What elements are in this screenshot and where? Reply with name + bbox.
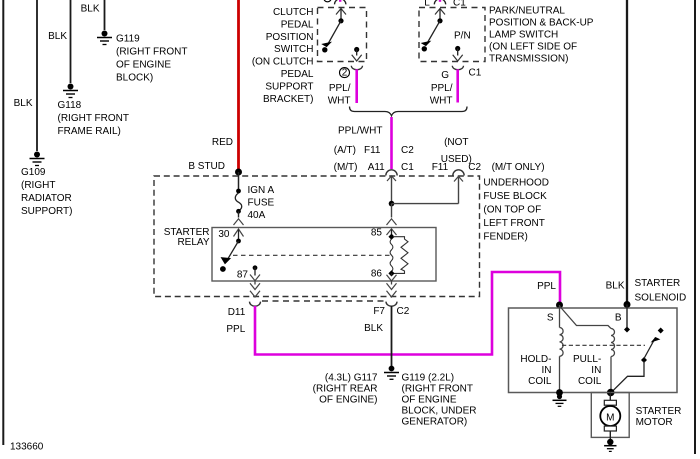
svg-text:IN: IN	[542, 365, 552, 376]
node S terminal	[556, 302, 563, 309]
svg-text:PPL: PPL	[537, 281, 556, 292]
P/N switch contacts	[422, 9, 471, 52]
underhood fuse block dashed box	[154, 176, 480, 301]
F11 C2 labels (not used connector)	[432, 162, 482, 173]
svg-text:WHT: WHT	[328, 95, 351, 106]
svg-text:(ON CLUTCH: (ON CLUTCH	[252, 57, 314, 68]
ground below starter motor	[604, 439, 616, 452]
connector cup below P/N box	[452, 66, 463, 70]
svg-text:(4.3L) G117: (4.3L) G117	[325, 373, 378, 384]
svg-text:UNDERHOOD: UNDERHOOD	[483, 178, 549, 189]
svg-text:C2: C2	[401, 145, 414, 156]
svg-text:PULL-: PULL-	[573, 354, 601, 365]
node hold-in coil to case	[556, 389, 563, 396]
ground G119 (engine block)	[97, 31, 187, 84]
svg-text:IGN A: IGN A	[248, 185, 275, 196]
node B terminal	[624, 301, 631, 308]
brace joining the two PPL/WHT wires	[350, 107, 468, 116]
connector A11/C1 on fuse block	[386, 170, 397, 204]
node B STUD junction dot	[235, 169, 242, 176]
svg-text:BLK: BLK	[14, 98, 33, 109]
svg-text:(RIGHT FRONT: (RIGHT FRONT	[58, 113, 129, 124]
starter motor M	[600, 393, 620, 441]
svg-text:C1: C1	[453, 0, 466, 9]
svg-text:BLK: BLK	[364, 323, 383, 334]
svg-text:OF ENGINE: OF ENGINE	[116, 60, 171, 71]
svg-text:FENDER): FENDER)	[483, 232, 527, 243]
node junction of A11 branch	[389, 201, 459, 207]
wire junction down to relay pin 85	[387, 204, 397, 225]
wire BLK to G119	[81, 0, 105, 30]
svg-text:(NOT: (NOT	[444, 137, 468, 148]
relay resistor (zigzag) parallel branch	[393, 237, 408, 274]
svg-text:PARK/NEUTRAL: PARK/NEUTRAL	[489, 6, 565, 17]
svg-text:SUPPORT): SUPPORT)	[21, 206, 73, 217]
svg-text:(A/T): (A/T)	[334, 145, 356, 156]
wire BLK to G118	[48, 0, 70, 83]
svg-text:OF ENGINE: OF ENGINE	[402, 395, 457, 406]
svg-text:BLOCK, UNDER: BLOCK, UNDER	[402, 406, 477, 417]
svg-text:PEDAL: PEDAL	[281, 19, 314, 30]
svg-text:40A: 40A	[248, 210, 266, 221]
right page border	[694, 0, 696, 454]
wire BLK from F7 to ground	[364, 306, 391, 366]
svg-text:FUSE BLOCK: FUSE BLOCK	[483, 191, 547, 202]
svg-text:(RIGHT: (RIGHT	[21, 180, 55, 191]
ground below hold-in coil	[553, 393, 567, 407]
svg-text:(RIGHT REAR: (RIGHT REAR	[313, 384, 378, 395]
clutch pedal position switch dashed box	[252, 7, 367, 105]
svg-text:FUSE: FUSE	[248, 197, 275, 208]
svg-text:(M/T ONLY): (M/T ONLY)	[492, 162, 545, 173]
fuse IGN A 40A	[235, 172, 274, 221]
svg-text:S: S	[547, 313, 554, 324]
svg-text:STARTER: STARTER	[635, 278, 681, 289]
svg-text:C1: C1	[401, 162, 414, 173]
connector cup below clutch box	[351, 66, 362, 70]
svg-text:POSITION: POSITION	[266, 32, 314, 43]
connector row labels (A/T) F11 C2	[334, 145, 414, 156]
svg-text:B: B	[615, 313, 622, 324]
circuit number 2 circled	[340, 68, 350, 79]
svg-text:L: L	[424, 0, 430, 9]
svg-text:RADIATOR: RADIATOR	[21, 193, 72, 204]
pin labels F7 C2	[373, 306, 409, 317]
underhood fuse block label	[483, 178, 549, 243]
svg-text:F11: F11	[364, 145, 381, 156]
svg-text:TRANSMISSION): TRANSMISSION)	[489, 54, 568, 65]
svg-text:BLK: BLK	[48, 31, 67, 42]
wire S to pull-in coil	[560, 306, 612, 329]
svg-text:87: 87	[237, 269, 249, 280]
svg-text:MOTOR: MOTOR	[636, 417, 673, 428]
wire PPL/WHT common	[338, 117, 392, 169]
svg-text:PPL/: PPL/	[431, 83, 453, 94]
svg-text:PPL: PPL	[226, 324, 245, 335]
relay pin 30	[218, 229, 243, 243]
relay pin 87	[237, 265, 260, 280]
svg-text:(ON TOP OF: (ON TOP OF	[483, 205, 541, 216]
svg-text:M: M	[606, 412, 614, 423]
relay pin 85	[371, 228, 397, 240]
svg-text:F7: F7	[373, 306, 385, 317]
svg-text:OF ENGINE): OF ENGINE)	[319, 395, 377, 406]
svg-text:COIL: COIL	[528, 376, 552, 387]
ground G117/G119	[313, 366, 477, 428]
svg-text:G119 (2.2L): G119 (2.2L)	[402, 373, 455, 384]
svg-text:C2: C2	[468, 162, 481, 173]
svg-text:FRAME RAIL): FRAME RAIL)	[58, 126, 121, 137]
starter solenoid box	[509, 308, 678, 393]
svg-text:D11: D11	[228, 307, 246, 318]
circled 2 (top, clipped)	[324, 0, 332, 2]
ground G118	[58, 84, 129, 138]
clutch switch output pin	[352, 47, 362, 61]
connector F11/C2 on fuse block (not used)	[453, 170, 464, 204]
left page border	[2, 0, 4, 445]
solenoid moving contact	[641, 328, 664, 364]
connector arc above P/N switch (clipped)	[434, 0, 445, 4]
svg-text:COIL: COIL	[578, 376, 602, 387]
connector row labels (M/T) A11 C1	[334, 162, 415, 173]
wire BLK to starter solenoid B	[606, 0, 627, 303]
svg-text:CLUTCH: CLUTCH	[273, 7, 314, 18]
wire PPL/WHT stub above P/N connector	[439, 0, 441, 2]
svg-text:LEFT FRONT: LEFT FRONT	[483, 218, 544, 229]
svg-text:85: 85	[371, 228, 383, 239]
relay internal linkage (dashed)	[233, 254, 391, 256]
svg-text:30: 30	[218, 229, 230, 240]
solenoid contact from B	[624, 305, 630, 333]
svg-text:F11: F11	[432, 162, 449, 173]
ground G109	[21, 152, 73, 218]
svg-text:P/N: P/N	[454, 31, 471, 42]
svg-text:LAMP SWITCH: LAMP SWITCH	[489, 30, 558, 41]
starter motor box	[591, 393, 681, 438]
park/neutral switch dashed box	[419, 6, 594, 65]
relay coil (wavy) 85-86	[390, 239, 393, 271]
starter relay box	[164, 227, 436, 281]
wire PPL/WHT from clutch switch	[328, 69, 357, 106]
clutch switch contacts	[322, 9, 346, 53]
svg-text:POSITION & BACK-UP: POSITION & BACK-UP	[489, 18, 594, 29]
arrow into relay pin 30	[234, 219, 244, 225]
relay output to D11 (double chevron)	[250, 282, 260, 298]
starter solenoid label	[635, 278, 687, 303]
relay switch blade 30-87	[220, 241, 239, 272]
svg-text:C2: C2	[397, 306, 410, 317]
relay pin 86	[371, 268, 397, 281]
svg-text:BLK: BLK	[81, 4, 100, 15]
svg-text:C1: C1	[469, 68, 482, 79]
wire PPL/WHT stub above clutch connector	[339, 0, 341, 2]
relay output to F7 (double chevron)	[387, 282, 397, 298]
connector F7/C2 cup	[386, 302, 397, 307]
pull-in coil	[573, 329, 615, 393]
(NOT USED) label	[441, 137, 472, 165]
mechanical linkage (dashed)	[562, 344, 645, 346]
connector D11 cup	[250, 302, 261, 307]
svg-text:RELAY: RELAY	[177, 237, 209, 248]
svg-text:BRACKET): BRACKET)	[263, 94, 314, 105]
svg-text:SUPPORT: SUPPORT	[265, 81, 313, 92]
svg-text:(ON LEFT SIDE OF: (ON LEFT SIDE OF	[489, 42, 577, 53]
svg-text:SOLENOID: SOLENOID	[635, 292, 687, 303]
svg-text:(M/T): (M/T)	[334, 162, 358, 173]
svg-text:SWITCH: SWITCH	[274, 44, 313, 55]
svg-text:BLOCK): BLOCK)	[116, 73, 153, 84]
svg-text:STARTER: STARTER	[636, 406, 682, 417]
svg-text:B STUD: B STUD	[188, 161, 225, 172]
svg-text:PPL/WHT: PPL/WHT	[338, 126, 382, 137]
svg-text:RED: RED	[212, 137, 233, 148]
wire BLK to G109	[14, 0, 37, 151]
svg-text:G: G	[441, 70, 449, 81]
svg-text:86: 86	[371, 268, 383, 279]
svg-text:PPL/: PPL/	[329, 83, 351, 94]
svg-text:(RIGHT FRONT: (RIGHT FRONT	[116, 47, 187, 58]
P/N switch output pin	[453, 46, 463, 61]
svg-text:PEDAL: PEDAL	[281, 69, 314, 80]
svg-text:133660: 133660	[10, 442, 44, 453]
battery feed wire RED to B STUD	[188, 0, 238, 172]
svg-text:G109: G109	[21, 167, 46, 178]
svg-text:GENERATOR): GENERATOR)	[402, 417, 468, 428]
svg-text:(RIGHT FRONT: (RIGHT FRONT	[402, 384, 473, 395]
node solenoid output to motor	[607, 389, 615, 397]
wire PPL from D11 to starter solenoid S	[226, 272, 560, 355]
svg-text:WHT: WHT	[430, 95, 453, 106]
wire PPL/WHT from P/N switch	[430, 69, 458, 106]
svg-text:G119: G119	[116, 34, 140, 45]
hold-in coil	[520, 305, 563, 393]
svg-text:BLK: BLK	[606, 281, 625, 292]
svg-text:IN: IN	[591, 365, 601, 376]
svg-text:2: 2	[342, 68, 348, 79]
svg-text:A11: A11	[368, 162, 385, 173]
solenoid armature linkage to motor node	[612, 361, 644, 392]
connector arc above clutch switch (clipped)	[335, 0, 346, 4]
svg-text:HOLD-: HOLD-	[520, 354, 551, 365]
svg-text:G118: G118	[58, 100, 82, 111]
